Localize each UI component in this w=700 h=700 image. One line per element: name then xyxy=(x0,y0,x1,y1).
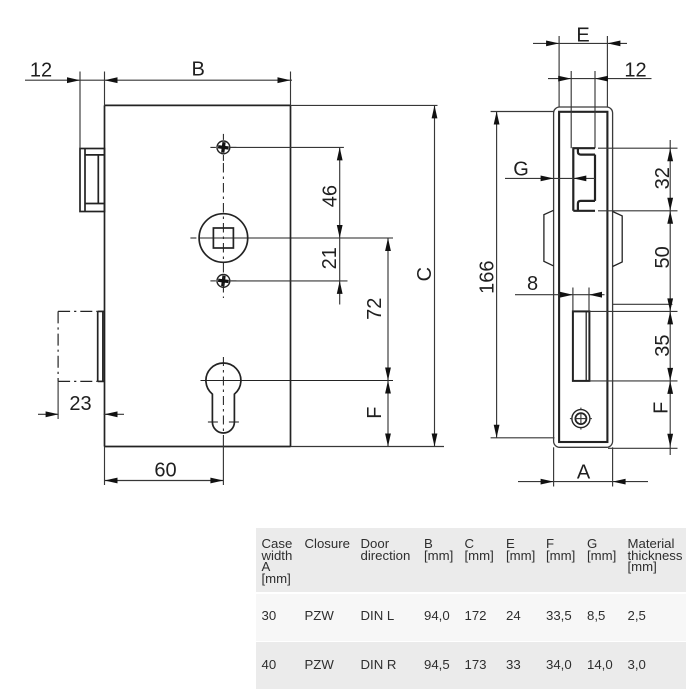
svg-text:32: 32 xyxy=(652,167,674,189)
table: header band xyxy=(256,528,687,593)
table header col 1 xyxy=(262,538,293,584)
svg-text:46: 46 xyxy=(320,185,342,207)
svg-text:21: 21 xyxy=(319,247,341,269)
svg-text:35: 35 xyxy=(652,334,674,356)
table row2 col 3 xyxy=(361,659,397,671)
table row1 col 4 xyxy=(424,610,450,622)
table row2 col 9 xyxy=(628,659,646,671)
svg-text:8: 8 xyxy=(527,273,538,295)
table header col 7 xyxy=(546,538,575,561)
svg-text:C: C xyxy=(414,267,436,281)
dimension 8 (deadbolt cutout width) xyxy=(515,294,605,296)
dimension 12 (left view, staple depth) xyxy=(25,79,292,81)
table header col 4 xyxy=(424,538,453,561)
right view: faceplate outer outline xyxy=(554,107,613,447)
dimension E (faceplate width) xyxy=(533,42,627,44)
svg-text:60: 60 xyxy=(154,460,176,482)
table row1 col 2 xyxy=(305,610,334,622)
table row1 col 6 xyxy=(506,610,521,622)
table row2 col 2 xyxy=(305,659,334,671)
dimension 46 (screw to follower) xyxy=(230,146,344,148)
table header col 8 xyxy=(587,538,616,561)
dimension 60 (backset) xyxy=(105,480,224,482)
right view: case side walls xyxy=(570,79,572,149)
table row2 col 4 xyxy=(424,659,450,671)
table header col 2 xyxy=(305,538,350,550)
table row1 col 3 xyxy=(361,610,395,622)
table header col 3 xyxy=(361,538,411,561)
table header col 5 xyxy=(465,538,494,561)
left view: top edge extension line to C dimension xyxy=(291,104,438,106)
svg-text:72: 72 xyxy=(364,298,386,320)
table row1 col 5 xyxy=(465,610,487,622)
dimension 12 (case thickness, right view) xyxy=(548,78,652,80)
right view: faceplate screw xyxy=(572,410,590,428)
svg-text:166: 166 xyxy=(476,261,498,294)
svg-text:23: 23 xyxy=(69,393,91,415)
right view: left wing lug xyxy=(544,210,554,266)
table row1 col 8 xyxy=(587,610,605,622)
table header col 6 xyxy=(506,538,535,561)
table row2 col 6 xyxy=(506,659,521,671)
left view: lower fixing screw xyxy=(217,275,230,288)
svg-text:50: 50 xyxy=(652,246,674,268)
right view: latch bolt cutout xyxy=(573,148,595,211)
svg-text:F: F xyxy=(364,406,386,418)
dimension F (cylinder to case bottom, left view) xyxy=(387,381,389,447)
dimension 166 (faceplate length) xyxy=(496,112,498,438)
table row1 col 1 xyxy=(262,610,277,622)
table row2 col 1 xyxy=(262,659,277,671)
left view: bottom edge extension line to C dimension xyxy=(291,446,445,448)
table row2 col 8 xyxy=(587,659,613,671)
table: row 2 band xyxy=(256,642,687,690)
svg-text:12: 12 xyxy=(30,60,52,82)
right view: chained dimensions 32 / 50 / 35 / F xyxy=(669,140,671,455)
left view: bolt head through faceplate xyxy=(97,311,99,381)
dimension 23 (bolt protrusion) xyxy=(38,413,59,415)
svg-text:12: 12 xyxy=(624,60,646,82)
svg-text:F: F xyxy=(651,402,673,414)
table row2 col 7 xyxy=(546,659,572,671)
svg-text:B: B xyxy=(192,59,205,81)
svg-text:A: A xyxy=(577,462,591,484)
dimension G (latch projection) xyxy=(505,177,595,179)
left view: euro profile cylinder hole xyxy=(206,363,241,433)
right view: faceplate inner contour xyxy=(559,112,607,442)
left view: upper fixing screw xyxy=(217,141,230,154)
dimension C (case height) xyxy=(434,105,436,446)
svg-text:E: E xyxy=(576,24,589,46)
left view: lock case outline xyxy=(104,105,106,446)
dimension B (case width) xyxy=(105,77,118,83)
left view: staple keeper on case left side xyxy=(80,149,105,212)
dimension 21 (follower to lower screw) xyxy=(230,280,347,282)
left view: follower hole with square spindle xyxy=(199,214,248,263)
table header col 9 xyxy=(628,538,683,573)
right view: right wing lug xyxy=(613,212,623,267)
dimension 72 (follower to cylinder) xyxy=(387,238,389,381)
table row1 col 7 xyxy=(546,610,572,622)
dimension A (case width, right view) xyxy=(518,481,648,483)
table row1 col 9 xyxy=(628,610,646,622)
left view: dead bolt (phantom outline) xyxy=(58,310,98,312)
right view: deadbolt cutout xyxy=(573,311,590,381)
svg-text:G: G xyxy=(513,159,529,181)
table row2 col 5 xyxy=(465,659,487,671)
table: row 1 band xyxy=(256,594,687,641)
